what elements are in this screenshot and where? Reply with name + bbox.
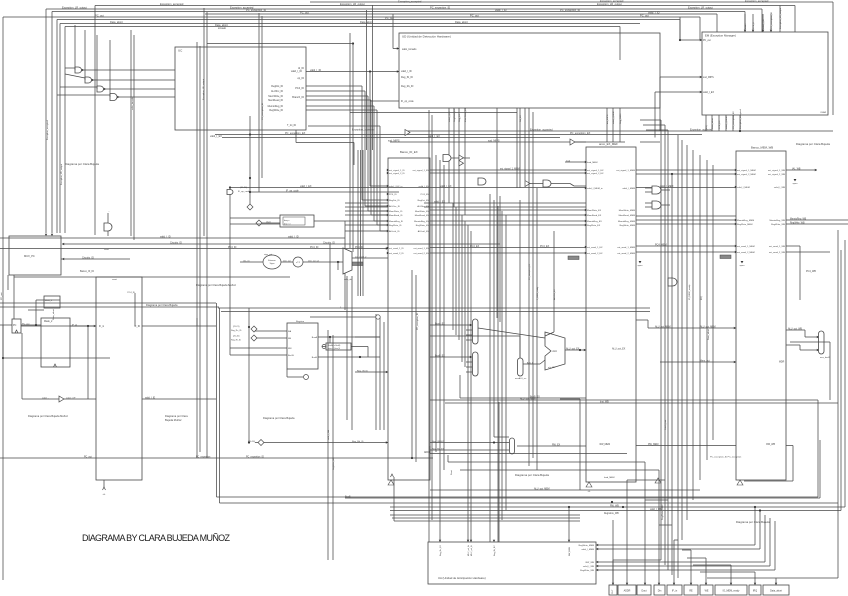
clock Banco_ID_EX <box>391 474 394 477</box>
wire ext_word_WB stubs <box>786 245 800 247</box>
svg-text:RegWrite_WB: RegWrite_WB <box>332 457 335 470</box>
svg-text:T_MEM_ready: T_MEM_ready <box>537 287 539 300</box>
wire ext_signal chain EX-MEM <box>430 169 586 171</box>
svg-text:RegWrite_WB: RegWrite_WB <box>771 223 785 226</box>
svg-text:Registro: Registro <box>296 320 305 323</box>
wire mid horizontal short stubs <box>565 161 586 163</box>
svg-text:return 1 [else] 0: return 1 [else] 0 <box>328 347 341 350</box>
svg-text:ext_signal_1_EX: ext_signal_1_EX <box>587 169 604 172</box>
svg-text:valid_I_WB: valid_I_WB <box>328 429 330 440</box>
svg-text:IF_ID: IF_ID <box>134 326 140 328</box>
wire ring right verticals <box>817 400 819 497</box>
svg-text:clk: clk <box>103 494 105 496</box>
svg-text:Diagrama por Clara Bujeda Muño: Diagrama por Clara Bujeda Muñoz <box>196 283 237 287</box>
wire valid route to ID_EX <box>369 72 371 187</box>
float symbol 3 <box>737 480 743 485</box>
wire BusB_EX <box>430 356 472 358</box>
svg-text:MemWrite_EX: MemWrite_EX <box>415 210 430 213</box>
svg-text:tomado: tomado <box>218 27 227 30</box>
svg-text:ext_word_2_ID: ext_word_2_ID <box>389 252 404 255</box>
svg-text:Reg_IN_ID: Reg_IN_ID <box>401 76 413 79</box>
wire UA right connections <box>596 544 755 546</box>
svg-text:RegWrite_EX: RegWrite_EX <box>453 108 456 122</box>
svg-text:salto_tomado: salto_tomado <box>131 96 134 110</box>
wire PC wires <box>0 324 12 326</box>
svg-text:EM (Exception Manager): EM (Exception Manager) <box>705 34 736 38</box>
svg-text:ext_signal_2_ID: ext_signal_2_ID <box>389 172 405 175</box>
svg-text:ext_word_1_MEM: ext_word_1_MEM <box>737 245 755 248</box>
svg-text:(2-0): (2-0) <box>266 222 271 224</box>
svg-text:RW_WB: RW_WB <box>766 444 775 446</box>
svg-text:Reg_Rd_ID: Reg_Rd_ID <box>352 441 364 443</box>
svg-text:Exception_accepted: Exception_accepted <box>352 129 375 132</box>
wire PC_out down <box>2 325 4 358</box>
svg-text:Reg_IN_EX: Reg_IN_EX <box>432 441 444 443</box>
wire valid_I_ID top <box>205 13 717 15</box>
svg-text:imm_ext: imm_ext <box>283 259 291 262</box>
wire BusB out <box>318 356 380 358</box>
svg-text:open: open <box>793 183 799 185</box>
svg-text:MemtoReg_WB: MemtoReg_WB <box>790 218 807 221</box>
hatch plug EX <box>568 256 579 260</box>
buffer sod_MIPS <box>570 139 575 145</box>
svg-text:Reg_Rs_ID: Reg_Rs_ID <box>231 330 242 332</box>
wire comparator out <box>314 220 345 222</box>
svg-text:RegWrite_MEM: RegWrite_MEM <box>579 544 595 547</box>
svg-text:Rd_EX: Rd_EX <box>520 115 522 122</box>
svg-text:reset: reset <box>821 111 827 114</box>
wire PC4 vertical from IF <box>134 293 136 326</box>
wire left verticals to bottom <box>130 30 132 236</box>
svg-text:ext_signal_1_ID: ext_signal_1_ID <box>389 169 405 172</box>
pipeline register Banco_ID_EX <box>388 158 430 480</box>
svg-text:PC4_EX: PC4_EX <box>470 245 480 248</box>
hatch plug MEM_WB <box>720 255 731 259</box>
svg-text:MemWrite_MEM: MemWrite_MEM <box>619 209 635 212</box>
svg-text:PC_exception_ID PC_exception: PC_exception_ID PC_exception <box>710 456 742 459</box>
svg-text:anco_EX_MEF: anco_EX_MEF <box>599 142 618 146</box>
svg-text:Exception_LR_output: Exception_LR_output <box>62 6 87 10</box>
svg-text:RegWrite_EX: RegWrite_EX <box>587 224 601 227</box>
svg-text:Diagrama por Clara: Diagrama por Clara <box>165 414 188 418</box>
svg-text:Dout: Dout <box>450 470 453 475</box>
svg-text:Circuito_ID: Circuito_ID <box>170 242 182 245</box>
svg-text:PC_exception_EX: PC_exception_EX <box>285 132 306 135</box>
wire busW return right <box>829 342 831 400</box>
svg-text:BusA: BusA <box>312 336 318 339</box>
svg-text:ext_word_1_EX: ext_word_1_EX <box>414 247 430 250</box>
wire ALU_out_MEM to WB <box>648 327 736 329</box>
svg-text:Exception_LR_output: Exception_LR_output <box>60 164 63 185</box>
svg-text:IRQ: IRQ <box>753 590 757 593</box>
svg-text:PC_exception: PC_exception <box>196 456 211 459</box>
svg-text:Banco_MEM_WB: Banco_MEM_WB <box>751 146 773 150</box>
wire ring left verticals <box>216 303 218 497</box>
svg-text:RTE_E: RTE_E <box>753 21 755 29</box>
float symbol 2 <box>586 482 592 487</box>
svg-text:RA: RA <box>288 330 292 333</box>
pipeline register Banco_EX_MEM <box>586 147 636 482</box>
comparator BusA BusB <box>326 343 351 350</box>
svg-text:ALUSrc_EX: ALUSrc_EX <box>417 205 429 208</box>
wire ALU output <box>565 349 586 351</box>
diamond Rt <box>251 335 257 341</box>
svg-text:Exception_accepted: Exception_accepted <box>690 129 713 132</box>
svg-text:T_Ini_ID: T_Ini_ID <box>287 124 296 127</box>
svg-text:MemRead_ID: MemRead_ID <box>268 99 283 102</box>
svg-text:UD (Unidad de Detección Hardwa: UD (Unidad de Detección Hardware) <box>402 35 451 39</box>
svg-text:Data_abort: Data_abort <box>707 329 710 340</box>
svg-text:ext_signal_1_MEM: ext_signal_1_MEM <box>616 169 635 172</box>
svg-text:PC4_WB: PC4_WB <box>806 270 816 273</box>
wire EM left inputs <box>680 39 702 41</box>
svg-text:valid_I_ID: valid_I_ID <box>310 69 321 72</box>
wire valid_I_EX mid <box>222 137 560 139</box>
svg-text:MemtoReg_EX: MemtoReg_EX <box>414 220 429 223</box>
svg-text:sod_MIPS: sod_MIPS <box>703 77 714 79</box>
wire exception vertical pair mid <box>411 270 413 458</box>
svg-text:beq =: beq = <box>284 220 290 222</box>
svg-text:open: open <box>740 265 746 267</box>
svg-text:IAL_WB: IAL_WB <box>792 168 801 171</box>
svg-text:valid_I_MEM: valid_I_MEM <box>726 116 728 129</box>
wire small pc loop <box>35 300 37 325</box>
diamond Rd <box>258 440 264 446</box>
wire Circuito_ID long <box>62 243 500 245</box>
svg-text:IF_in: IF_in <box>672 590 678 593</box>
diamond Rs <box>251 326 257 332</box>
svg-text:valid_I_MEM: valid_I_MEM <box>660 186 673 188</box>
clock Banco_IF_ID <box>103 487 106 490</box>
wire ALU_out_WB to mux <box>786 329 805 331</box>
mux ALUsrc <box>518 358 524 376</box>
svg-text:mux_busW: mux_busW <box>820 357 830 359</box>
wire PC4_MEM chain <box>636 245 736 247</box>
wire PC_out second <box>57 19 680 21</box>
wire gates to left bus <box>74 25 76 70</box>
svg-text:MemtoReg_MEM: MemtoReg_MEM <box>737 219 754 222</box>
svg-text:Exception_LR_output: Exception_LR_output <box>597 2 622 6</box>
wire IO elbows <box>430 453 627 455</box>
svg-text:PC_out: PC_out <box>470 14 479 18</box>
svg-text:MemWrite_ID: MemWrite_ID <box>389 210 403 213</box>
svg-text:sign_ext: sign_ext <box>264 253 273 256</box>
svg-text:RegWrite_MEM: RegWrite_MEM <box>620 224 636 227</box>
hatch plug MEM <box>352 262 363 266</box>
svg-text:ext_word_2_MEM: ext_word_2_MEM <box>737 251 755 254</box>
svg-text:ALU: ALU <box>552 350 557 353</box>
wire Data_abort top <box>60 23 640 25</box>
wire bubble clock reg <box>376 315 380 319</box>
svg-text:Exception_LR_output: Exception_LR_output <box>779 8 782 29</box>
svg-text:ALUctrl_ID: ALUctrl_ID <box>389 230 400 233</box>
wire bundle top elbows <box>640 119 661 121</box>
svg-text:Reg_IN_ID: Reg_IN_ID <box>357 371 368 373</box>
svg-text:ALUSrc_ID: ALUSrc_ID <box>389 205 400 208</box>
diamond ID split 1 <box>247 204 253 210</box>
svg-text:Circuito_ID: Circuito_ID <box>323 242 335 245</box>
svg-text:DIAGRAMA BY CLARA BUJEDA MUÑOZ: DIAGRAMA BY CLARA BUJEDA MUÑOZ <box>82 533 231 543</box>
wire PC_out top <box>3 16 700 18</box>
svg-text:valid_I_EX: valid_I_EX <box>703 92 714 94</box>
svg-text:Extensor: Extensor <box>268 259 276 262</box>
wire valid bottom-left <box>21 333 23 399</box>
exception manager EM <box>702 32 828 115</box>
svg-text:RE: RE <box>689 590 693 593</box>
wire sod_MIPS line <box>390 141 625 143</box>
svg-text:MDR: MDR <box>779 362 785 364</box>
svg-text:RW_WB: RW_WB <box>586 562 595 564</box>
wire valid_I_ID mid-left <box>142 398 216 400</box>
svg-text:RW_MEM: RW_MEM <box>648 444 659 446</box>
svg-text:Data_abort: Data_abort <box>110 20 123 24</box>
svg-text:IF_id: IF_id <box>72 325 78 327</box>
svg-text:valid_..: valid_.. <box>42 398 49 400</box>
svg-text:valid_I_EX: valid_I_EX <box>440 185 452 188</box>
svg-text:PC_out: PC_out <box>300 11 309 15</box>
svg-text:BusW: BusW <box>288 355 295 357</box>
svg-text:valid_I_MEM: valid_I_MEM <box>622 188 635 190</box>
control unit UC <box>175 47 306 130</box>
memory interface boxes <box>609 585 617 595</box>
svg-text:Registros_WB: Registros_WB <box>604 512 619 515</box>
svg-text:Data_abort: Data_abort <box>52 309 55 320</box>
svg-text:IRQ: IRQ <box>701 296 703 300</box>
svg-text:salto_tomado: salto_tomado <box>402 48 417 51</box>
svg-text:...: ... <box>108 210 110 213</box>
wire PC4_EX chain <box>430 247 586 249</box>
svg-text:Diagrama por Clara Bujeda: Diagrama por Clara Bujeda <box>146 303 178 307</box>
svg-text:PC_out: PC_out <box>640 14 649 18</box>
and gate valid_MEM <box>543 180 551 187</box>
svg-text:MemtoReg_EX: MemtoReg_EX <box>587 220 602 223</box>
svg-text:RW_MEM: RW_MEM <box>600 444 611 446</box>
svg-text:RTE_EX: RTE_EX <box>719 120 721 129</box>
alu ALU1 <box>545 332 565 370</box>
svg-text:PC_exception_EX: PC_exception_EX <box>570 132 591 135</box>
and gate G4 <box>110 94 117 101</box>
or gate PC <box>104 223 112 231</box>
svg-text:Exception_accepted: Exception_accepted <box>398 0 422 4</box>
svg-text:PC_exception_ID: PC_exception_ID <box>246 456 264 459</box>
svg-text:(15 - 0): (15 - 0) <box>243 261 250 263</box>
svg-text:ext_word_2_MEM: ext_word_2_MEM <box>617 252 635 255</box>
svg-text:ext_word_2: ext_word_2 <box>355 256 367 259</box>
wire Reg lines into comparator <box>230 217 280 219</box>
svg-text:muxALU_src: muxALU_src <box>515 377 526 380</box>
svg-text:RegWrite_WB: RegWrite_WB <box>790 222 805 225</box>
svg-text:valid_I_ID: valid_I_ID <box>495 8 507 12</box>
svg-text:Circuito_ID: Circuito_ID <box>82 257 94 260</box>
svg-text:Mask_2: Mask_2 <box>44 320 53 323</box>
wire mux salto wires <box>338 261 343 263</box>
wire RW_EX chain <box>517 445 586 447</box>
svg-text:MemWrite_EX: MemWrite_EX <box>587 209 602 212</box>
wire PC_exception row <box>0 457 433 459</box>
svg-text:RegWrite_EX: RegWrite_EX <box>416 224 430 227</box>
wire IF_in line <box>21 325 96 327</box>
svg-text:imm_ext_x4: imm_ext_x4 <box>308 260 320 263</box>
svg-text:(20-16): (20-16) <box>233 336 240 338</box>
svg-text:MemRead_MEM: MemRead_MEM <box>619 215 636 217</box>
and gate G2 <box>85 77 92 83</box>
svg-text:PC_out: PC_out <box>22 323 30 326</box>
svg-text:ADDR: ADDR <box>624 590 631 593</box>
wire PC_exception_EX line <box>215 134 702 136</box>
svg-text:MUX_sel_B: MUX_sel_B <box>471 545 473 556</box>
clock regfile <box>304 375 309 380</box>
float symbol 4 <box>655 478 661 483</box>
svg-text:Exception_accepted: Exception_accepted <box>160 2 184 6</box>
svg-text:Exception_accepted: Exception_accepted <box>739 109 742 129</box>
wire ring horizontals right <box>430 399 818 401</box>
wire RW_MEM into UA <box>568 507 570 542</box>
svg-text:ext_signal_1_MEM: ext_signal_1_MEM <box>737 169 756 172</box>
svg-text:valid_I_WB: valid_I_WB <box>583 566 595 568</box>
svg-text:ext_word_2_EX: ext_word_2_EX <box>587 252 603 255</box>
and gate G5 <box>478 178 486 185</box>
svg-text:PC_exception_ID: PC_exception_ID <box>246 8 266 12</box>
svg-text:valid_I_MEM: valid_I_MEM <box>613 111 615 124</box>
and gate G1 <box>75 67 82 73</box>
svg-text:MemRead_ID: MemRead_ID <box>389 215 403 217</box>
wire BusA_EX <box>430 324 472 326</box>
svg-text:MemRead_EX: MemRead_EX <box>415 215 430 217</box>
wire RegDst vertical <box>519 200 521 358</box>
wire mux A inputs <box>466 329 472 331</box>
svg-text:inv_MIPS: inv_MIPS <box>607 114 609 124</box>
comparator box <box>280 215 314 227</box>
svg-text:reset: reset <box>112 278 117 281</box>
svg-text:ext_signal_1_EX: ext_signal_1_EX <box>413 169 430 172</box>
buffer valid_I_IF <box>59 396 64 402</box>
svg-text:valid_I_MEM: valid_I_MEM <box>737 187 750 189</box>
svg-text:RB: RB <box>288 338 292 340</box>
svg-text:(20-16): (20-16) <box>248 441 255 443</box>
wire left edge mid lines <box>0 302 216 304</box>
mask Mask_2 <box>41 318 70 367</box>
svg-text:clk: clk <box>588 491 590 493</box>
svg-text:ALUSrc_ID: ALUSrc_ID <box>271 90 283 93</box>
wire control signals WB out <box>786 219 848 221</box>
svg-text:PC_out: PC_out <box>0 292 3 300</box>
svg-text:(31-26): (31-26) <box>240 187 247 189</box>
register file Registro <box>287 323 318 369</box>
wire regfile to ID_EX wavy <box>375 314 377 430</box>
wire IF_ID out <box>142 325 216 327</box>
wire control signals MEM to WB <box>636 219 736 221</box>
wire RegWrite_WB verticals down <box>327 330 329 560</box>
svg-text:Bujeda Muñoz: Bujeda Muñoz <box>165 418 182 422</box>
svg-text:ALU_out_WB: ALU_out_WB <box>788 328 802 331</box>
wire UC valid_I_ID out <box>306 71 399 73</box>
svg-text:Exception_LR_output: Exception_LR_output <box>340 2 365 6</box>
svg-text:PC_out: PC_out <box>385 16 394 20</box>
svg-text:Diagrama por Clara Bujeda Muño: Diagrama por Clara Bujeda Muñoz <box>28 414 69 418</box>
wire ALUctrl route <box>308 125 380 127</box>
wire PC_exception_ID <box>52 11 745 13</box>
svg-text:valid_I_MEM_in: valid_I_MEM_in <box>587 188 603 190</box>
pipeline register Banco_MEM_WB <box>736 151 786 480</box>
wire IO drops <box>612 520 614 585</box>
wire Mem_out <box>660 361 736 363</box>
svg-text:ext_signal_2_MEM: ext_signal_2_MEM <box>737 173 756 176</box>
svg-text:PC4_ID: PC4_ID <box>127 292 135 294</box>
svg-text:PC_exception_EX: PC_exception_EX <box>732 111 735 129</box>
wire bundle MEM-IO verticals <box>660 120 662 560</box>
svg-text:sod_MIPS: sod_MIPS <box>488 140 500 143</box>
svg-text:Reg_EX: Reg_EX <box>459 113 461 122</box>
svg-text:valid_I_ID: valid_I_ID <box>160 236 171 239</box>
wire IF_op_code <box>250 191 399 193</box>
wire MUX_PC out <box>13 275 15 319</box>
svg-text:UA (Unidad de Anticipación Har: UA (Unidad de Anticipación Hardware) <box>438 576 486 580</box>
mux MUX_B <box>473 352 479 376</box>
svg-text:Reg_Rd_EX: Reg_Rd_EX <box>432 449 445 451</box>
wire PC_out jog mid <box>207 43 353 45</box>
svg-text:MemWrite_ID: MemWrite_ID <box>268 95 283 98</box>
mux salto trapezoid <box>343 248 352 274</box>
svg-text:valid_I_ID: valid_I_ID <box>763 19 765 29</box>
wire ALU_out_MEM above UA <box>580 489 700 491</box>
buffer valid2 <box>525 181 530 187</box>
wire salto_tomado OR <box>227 190 233 195</box>
wire IO bottom elbows from right bundle <box>613 559 661 561</box>
wire EM top pins <box>744 14 746 32</box>
wire Exception_LR_output <box>46 8 762 10</box>
wire BusA out <box>318 336 380 338</box>
svg-text:Banco_ID_EX: Banco_ID_EX <box>400 150 418 154</box>
wire valid_I_IF <box>22 398 59 400</box>
svg-text:Diagrama por Clara Bujeda: Diagrama por Clara Bujeda <box>263 416 295 420</box>
or gate EX1 <box>443 155 451 162</box>
svg-text:RegWrite_MEM: RegWrite_MEM <box>737 223 753 226</box>
svg-text:RegDst_EX: RegDst_EX <box>418 199 430 202</box>
svg-text:PC_exception_ID: PC_exception_ID <box>430 6 450 10</box>
wire IF_op_code to UD <box>496 108 498 192</box>
svg-text:PC4_ID: PC4_ID <box>389 194 397 196</box>
wire mask to IF <box>70 325 96 327</box>
wire BusB_EX lower <box>460 397 586 399</box>
svg-text:ext_word_2_EX: ext_word_2_EX <box>414 252 430 255</box>
svg-text:IF_op_code: IF_op_code <box>286 190 299 193</box>
svg-text:PC: PC <box>13 324 17 327</box>
svg-text:PC_exception_ID: PC_exception_ID <box>261 103 264 120</box>
svg-text:PC4_EX: PC4_EX <box>540 245 550 248</box>
pipeline register Banco_IF_ID <box>96 277 142 480</box>
svg-text:BusB: BusB <box>312 357 318 359</box>
svg-text:valid_I_WB: valid_I_WB <box>774 187 786 189</box>
svg-text:ext_word_1_MEM: ext_word_1_MEM <box>617 246 635 249</box>
wire control signals ID-EX to EX-MEM <box>430 209 586 211</box>
mux MUX_A <box>473 319 479 344</box>
svg-text:Inst_WB: Inst_WB <box>600 401 609 404</box>
wire MUX_PC top arrows <box>45 234 47 236</box>
and gate MEM2 <box>652 201 661 209</box>
wire gate feeds <box>645 187 652 189</box>
hazard detection unit UD <box>399 33 660 108</box>
svg-text:undef: undef <box>745 23 747 29</box>
svg-text:PC_out: PC_out <box>84 456 92 459</box>
svg-text:ext_word_1_WB: ext_word_1_WB <box>769 245 786 248</box>
wire PC4_WB down <box>799 246 801 300</box>
svg-text:RegDst_ID: RegDst_ID <box>271 85 283 88</box>
svg-text:Signo: Signo <box>270 263 275 265</box>
svg-text:Reg_Rs_ID: Reg_Rs_ID <box>401 85 414 88</box>
svg-text:Exception_accepted: Exception_accepted <box>745 0 769 3</box>
svg-text:MemRead_EX: MemRead_EX <box>587 215 602 217</box>
svg-text:(25-21): (25-21) <box>233 326 240 328</box>
